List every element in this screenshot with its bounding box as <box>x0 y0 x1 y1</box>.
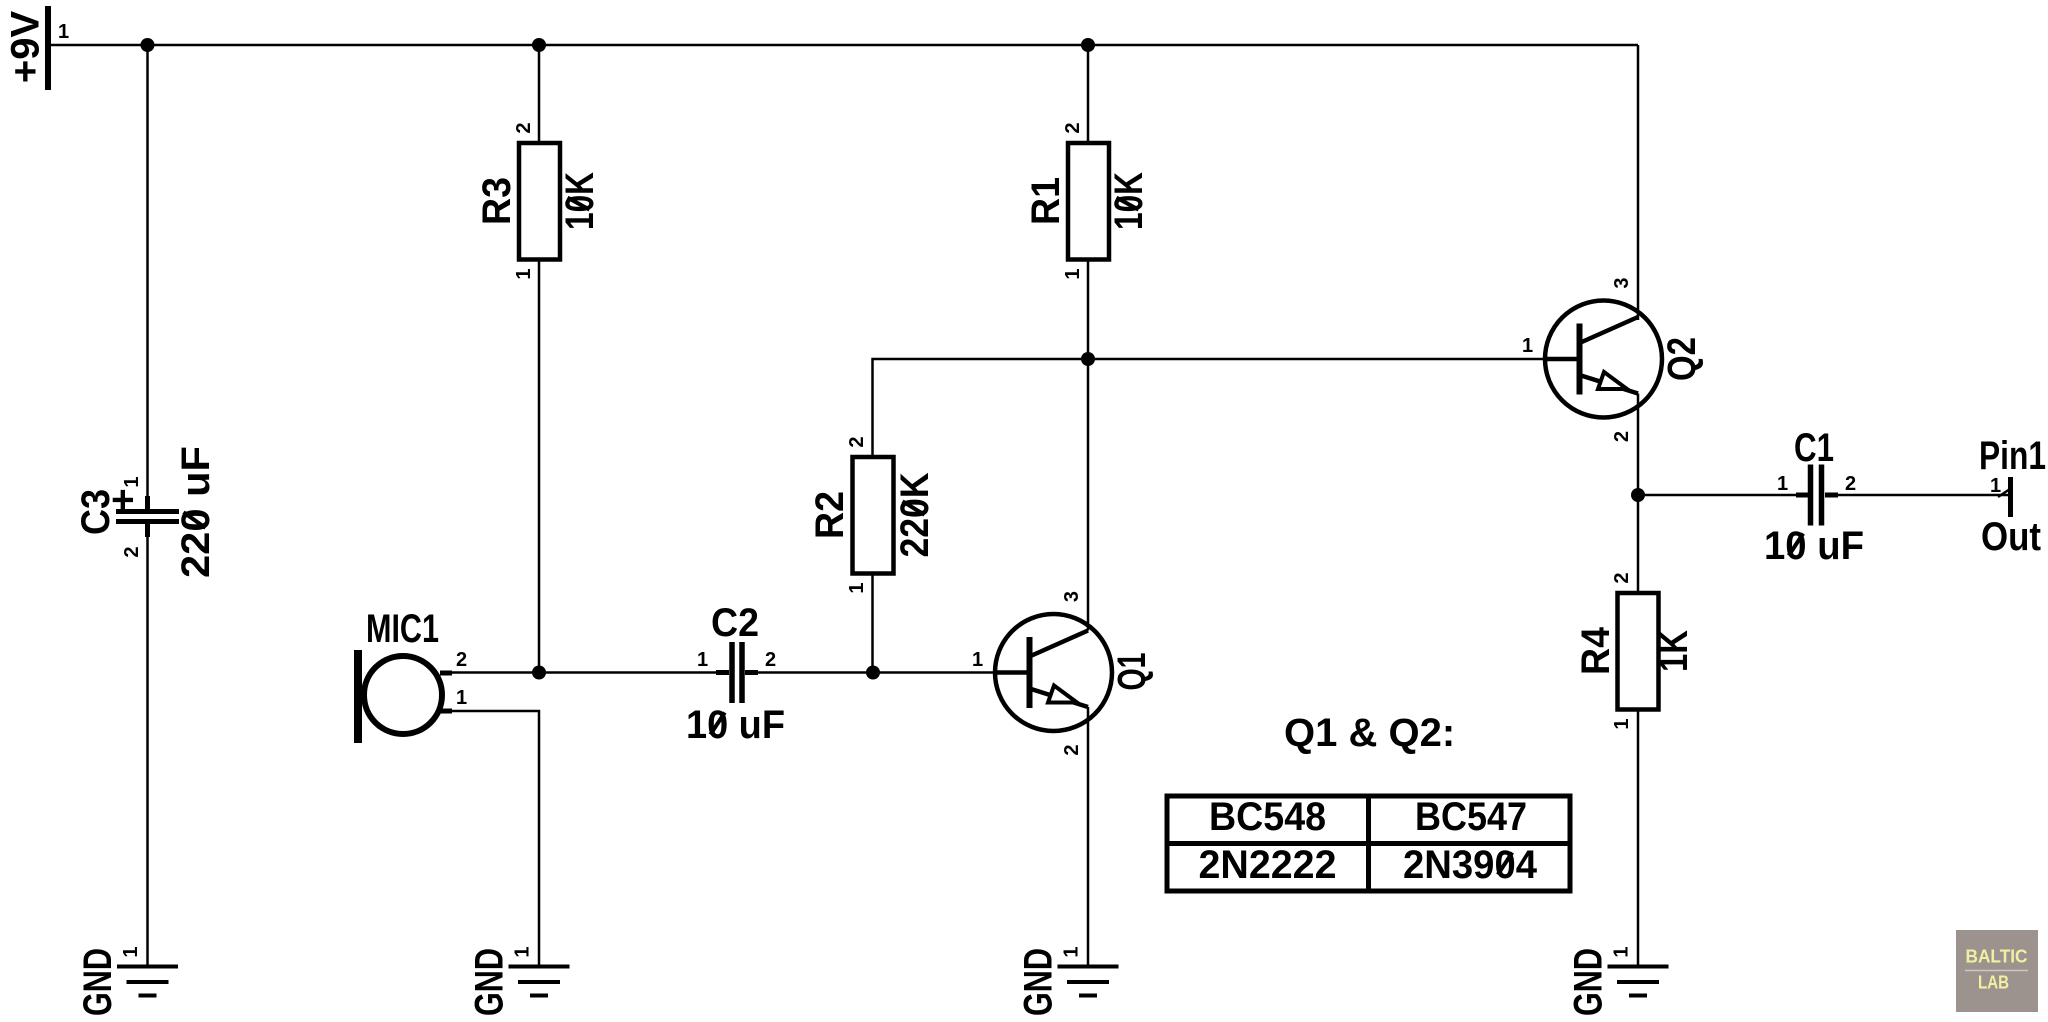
capacitor C2 <box>686 601 785 747</box>
svg-text:BC548: BC548 <box>1209 795 1326 839</box>
capacitor C1 <box>1764 426 1864 568</box>
microphone MIC1 <box>354 607 467 743</box>
svg-text:3: 3 <box>1061 591 1083 602</box>
transistor Q1 <box>972 591 1154 756</box>
svg-text:3: 3 <box>1611 277 1633 288</box>
svg-text:GND: GND <box>1017 948 1061 1016</box>
svg-text:2N2222: 2N2222 <box>1199 843 1337 887</box>
node junction top R3 <box>532 38 546 52</box>
svg-text:Out: Out <box>1981 515 2041 559</box>
wire R4 bottom to ground <box>1637 710 1640 967</box>
svg-text:R2: R2 <box>808 491 852 539</box>
wire right vertical to Q2 collector <box>1637 45 1640 320</box>
svg-text:1: 1 <box>1062 268 1084 279</box>
svg-text:GND: GND <box>468 948 512 1016</box>
svg-text:1: 1 <box>1061 946 1083 957</box>
wire R2 bottom to bias node <box>871 574 874 673</box>
svg-text:2: 2 <box>846 436 868 447</box>
svg-text:C1: C1 <box>1794 426 1834 470</box>
wire output node to C1 <box>1638 494 1810 497</box>
svg-text:220 uF: 220 uF <box>174 446 218 578</box>
node bias junction R3 <box>532 666 546 680</box>
wire R3 bottom to bias node <box>538 260 541 673</box>
wire mic pin2 to bias node <box>452 671 717 674</box>
wire R1 bottom to mid node <box>1087 260 1090 360</box>
svg-text:2: 2 <box>1611 572 1633 583</box>
svg-text:2: 2 <box>1061 744 1083 755</box>
wire Q2 emitter to R4 <box>1637 394 1640 594</box>
wire R3 top to rail <box>538 45 541 143</box>
svg-text:R1: R1 <box>1024 177 1068 225</box>
svg-text:1: 1 <box>513 268 535 279</box>
svg-text:10K: 10K <box>558 172 602 230</box>
wire R2 top to mid rail <box>873 359 1546 457</box>
svg-text:1: 1 <box>1990 475 2001 497</box>
ground GND (C3 branch) <box>76 946 178 1016</box>
svg-text:10 uF: 10 uF <box>1764 524 1864 568</box>
ground GND (Q1 emitter) <box>1017 946 1119 1016</box>
svg-text:1K: 1K <box>1652 630 1696 672</box>
svg-text:GND: GND <box>1567 948 1611 1016</box>
wire Q1 emitter to ground <box>1087 707 1090 966</box>
svg-text:R3: R3 <box>475 177 519 225</box>
transistor Q2 <box>1522 277 1704 442</box>
node junction top R1 <box>1081 38 1095 52</box>
wire left vertical (C3 branch) <box>146 45 149 509</box>
ground GND (mic branch) <box>468 946 570 1016</box>
svg-text:1: 1 <box>121 476 143 487</box>
svg-text:2: 2 <box>513 122 535 133</box>
svg-text:1: 1 <box>456 687 467 709</box>
svg-text:10K: 10K <box>1107 172 1151 230</box>
svg-text:1: 1 <box>58 21 69 43</box>
resistor R4 <box>1574 572 1696 729</box>
svg-text:1: 1 <box>1611 718 1633 729</box>
svg-text:BC547: BC547 <box>1415 795 1527 839</box>
svg-text:Q2: Q2 <box>1660 337 1704 381</box>
svg-text:1: 1 <box>120 946 142 957</box>
node output junction <box>1631 488 1645 502</box>
svg-text:Q1 & Q2:: Q1 & Q2: <box>1284 711 1455 755</box>
wire Q1 collector to mid node <box>1087 359 1090 631</box>
table transistor equivalents <box>1167 795 1570 891</box>
wire C1 to output pin <box>1838 494 2010 497</box>
wire top rail <box>48 44 1638 47</box>
svg-text:1: 1 <box>697 649 708 671</box>
svg-text:+9V: +9V <box>4 11 48 84</box>
svg-text:LAB: LAB <box>1978 973 2009 993</box>
svg-text:1: 1 <box>512 946 534 957</box>
resistor R2 <box>808 436 937 593</box>
node junction top-left <box>141 38 155 52</box>
svg-text:2N3904: 2N3904 <box>1403 843 1538 887</box>
svg-text:R4: R4 <box>1574 626 1618 675</box>
svg-text:2: 2 <box>456 649 467 671</box>
svg-text:C2: C2 <box>711 601 759 645</box>
svg-text:220K: 220K <box>893 472 937 557</box>
logo BALTIC LAB <box>1956 930 2038 1012</box>
svg-text:1: 1 <box>1777 473 1788 495</box>
svg-text:1: 1 <box>1522 335 1533 357</box>
svg-text:2: 2 <box>1062 122 1084 133</box>
svg-text:10 uF: 10 uF <box>686 703 785 747</box>
resistor R1 <box>1024 122 1151 279</box>
wire mic pin1 to ground <box>452 711 539 966</box>
svg-text:Pin1: Pin1 <box>1979 434 2046 478</box>
capacitor C3 <box>74 446 218 578</box>
power symbol +9V <box>4 6 70 90</box>
resistor R3 <box>475 122 602 279</box>
svg-text:2: 2 <box>1611 431 1633 442</box>
svg-text:1: 1 <box>972 649 983 671</box>
svg-text:+: + <box>101 488 145 511</box>
svg-text:2: 2 <box>1845 473 1856 495</box>
svg-text:Q1: Q1 <box>1110 653 1154 691</box>
connector Pin1 Out <box>1979 434 2046 559</box>
svg-text:GND: GND <box>76 948 120 1016</box>
wire R1 top to rail <box>1087 45 1090 143</box>
svg-text:1: 1 <box>846 582 868 593</box>
svg-text:BALTIC: BALTIC <box>1966 947 2028 967</box>
svg-text:1: 1 <box>1611 946 1633 957</box>
svg-text:2: 2 <box>765 649 776 671</box>
svg-text:MIC1: MIC1 <box>366 607 439 651</box>
svg-text:2: 2 <box>121 546 143 557</box>
ground GND (R4 branch) <box>1567 946 1669 1016</box>
node mid junction <box>1081 352 1095 366</box>
wire C2 to Q1 base <box>758 671 996 674</box>
node bias junction R2 <box>866 666 880 680</box>
